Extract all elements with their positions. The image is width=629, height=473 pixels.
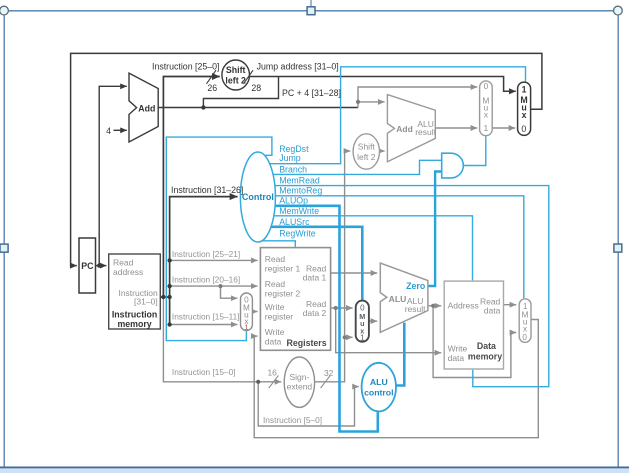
svg-text:address: address <box>113 267 143 277</box>
svg-text:Instruction [5–0]: Instruction [5–0] <box>263 415 322 425</box>
branch mux (0/Mux/1) <box>480 81 493 136</box>
selection border left <box>3 11 5 467</box>
svg-text:ALU: ALU <box>370 377 388 387</box>
wire: ALU control output to ALU (highlighted) <box>396 323 404 386</box>
wire: ALUOp control to ALU control (highlighted) <box>275 206 378 432</box>
wire: ALU result down to memtoreg mux input 0 <box>433 306 516 378</box>
sign extend oval <box>284 357 314 407</box>
svg-text:Instruction [25–21]: Instruction [25–21] <box>172 249 240 259</box>
svg-text:memory: memory <box>468 351 502 361</box>
wire: regdst mux output to write register <box>252 311 257 313</box>
edge handle right-middle <box>614 244 622 252</box>
bus slash 28 <box>244 70 254 84</box>
svg-text:Address: Address <box>448 301 479 311</box>
svg-text:16: 16 <box>267 367 277 377</box>
branch adder Add ALU result <box>387 95 435 162</box>
AND gate (branch and zero) <box>442 153 464 178</box>
adder Add (PC+4) <box>129 73 158 142</box>
svg-text:26: 26 <box>207 83 217 93</box>
svg-text:result: result <box>405 304 426 314</box>
svg-text:data 2: data 2 <box>303 308 327 318</box>
svg-text:Write: Write <box>265 302 285 312</box>
jump mux (1/Mux/0) <box>518 82 531 135</box>
data memory block <box>444 281 503 369</box>
wire: instruction [20-16] branch down to regdst mux input 0 <box>221 286 238 298</box>
svg-text:ALU: ALU <box>389 294 407 304</box>
svg-text:left 2: left 2 <box>357 152 376 162</box>
svg-text:1: 1 <box>360 333 365 342</box>
svg-text:Instruction [31–26]: Instruction [31–26] <box>171 185 243 195</box>
wire: Branch control to AND gate input 1 <box>272 160 441 174</box>
svg-text:Add: Add <box>396 124 413 134</box>
wire: RegWrite control to registers <box>262 241 295 247</box>
wire: sign extend output and riser to shift left 2 <box>315 151 351 382</box>
wire: writeback from memtoreg mux to registers write data <box>254 320 538 438</box>
svg-text:4: 4 <box>106 126 111 136</box>
svg-text:32: 32 <box>324 368 334 378</box>
svg-text:result: result <box>415 127 436 137</box>
wire: MemtoReg control to memtoreg mux select <box>275 196 524 298</box>
node: PC+4 branch junction <box>356 100 360 104</box>
svg-text:Instruction [15–0]: Instruction [15–0] <box>172 367 236 377</box>
wire: read data 1 to ALU input 1 <box>331 272 378 274</box>
node: ALU result tap <box>431 304 435 308</box>
svg-text:0: 0 <box>522 333 527 342</box>
svg-text:register: register <box>265 312 294 322</box>
svg-text:x: x <box>522 110 527 120</box>
regdst mux (0/Mux/1) <box>241 293 253 331</box>
node: sign extend input tap <box>256 380 260 384</box>
node: read data 2 tap <box>334 306 338 310</box>
bottom strip <box>0 468 629 473</box>
ALUSrc mux (0/Mux/1) highlighted dark <box>356 301 369 342</box>
svg-text:extend: extend <box>287 382 313 392</box>
ALU control oval <box>362 363 396 412</box>
wire: instruction memory output to bus <box>160 296 169 298</box>
svg-text:MemRead: MemRead <box>279 176 320 186</box>
wire: ALUSrc control to ALUSrc mux select (highlighted) <box>270 227 362 300</box>
edge handle left-middle <box>0 244 8 252</box>
wire: instruction [25-21] to read register 1 <box>170 259 258 261</box>
PC register <box>79 238 96 293</box>
svg-text:RegWrite: RegWrite <box>279 229 316 239</box>
shift left 2 (jump) <box>222 60 250 90</box>
svg-text:Jump: Jump <box>279 153 301 163</box>
svg-text:28: 28 <box>251 83 261 93</box>
wire: read data 2 to ALUSrc mux input 0 <box>331 307 353 309</box>
wire: AND gate output to branch mux select <box>463 136 485 165</box>
edge handle top-middle <box>307 7 315 15</box>
svg-text:Read: Read <box>113 257 134 267</box>
selection border right <box>617 11 619 467</box>
svg-text:0: 0 <box>521 124 526 134</box>
wire: MemWrite control to data memory <box>273 216 472 281</box>
wire: jump address [31-0] to jump mux input 1 <box>249 77 515 92</box>
node: PC+4 concat junction <box>201 105 205 109</box>
registers block <box>260 248 330 351</box>
selection border top <box>4 10 618 12</box>
node: immediate tap to ALUSrc mux <box>343 335 347 339</box>
svg-text:Branch: Branch <box>279 165 307 175</box>
svg-text:left 2: left 2 <box>225 76 246 86</box>
wire: instruction [20-16] to read register 2 <box>170 285 258 287</box>
svg-text:ALUSrc: ALUSrc <box>279 217 310 227</box>
svg-text:[31–0]: [31–0] <box>134 297 158 307</box>
wire: branch Add result to branch mux input 1 <box>435 127 477 129</box>
wire: Jump control to jump mux select <box>268 67 526 164</box>
shift left 2 (branch) <box>353 134 379 169</box>
node: PC output junction <box>97 263 101 267</box>
svg-text:Zero: Zero <box>406 281 426 291</box>
page bottom edge line <box>0 467 629 469</box>
wire: data memory read data to memtoreg mux input 1 <box>504 304 517 306</box>
wire: PC value up to Add input 1 <box>99 86 127 265</box>
main ALU <box>380 263 428 332</box>
corner handle top-right <box>614 6 623 15</box>
bus slash 16 <box>269 376 279 389</box>
svg-text:Registers: Registers <box>287 338 327 348</box>
svg-text:data: data <box>265 337 282 347</box>
svg-text:Instruction [20–16]: Instruction [20–16] <box>172 274 240 284</box>
svg-text:0: 0 <box>484 82 489 91</box>
svg-text:register 1: register 1 <box>265 263 301 273</box>
wire: PC+4 up to branch mux input 0 <box>358 87 477 102</box>
svg-text:MemtoReg: MemtoReg <box>279 186 322 196</box>
svg-text:Add: Add <box>138 104 155 114</box>
svg-text:Jump address [31–0]: Jump address [31–0] <box>257 62 339 72</box>
control unit oval <box>240 152 275 242</box>
wire: instruction [5-0] to ALU control <box>258 382 359 426</box>
svg-text:MemWrite: MemWrite <box>279 206 319 216</box>
svg-text:memory: memory <box>117 319 151 329</box>
svg-text:register 2: register 2 <box>265 289 301 299</box>
svg-text:Instruction: Instruction <box>112 310 157 320</box>
node: instruction [20-16] split <box>218 284 222 288</box>
svg-text:Control: Control <box>242 192 274 202</box>
svg-text:Instruction [15–11]: Instruction [15–11] <box>172 311 240 321</box>
svg-text:data 1: data 1 <box>303 273 327 283</box>
wire: PC+4 jog to junction <box>357 102 359 108</box>
svg-text:Write: Write <box>448 344 468 354</box>
svg-text:Write: Write <box>265 327 285 337</box>
wire: Add output PC+4 <box>158 107 358 109</box>
svg-text:Shift: Shift <box>358 141 376 151</box>
wire: immediate branch to ALUSrc mux input 1 <box>345 336 353 338</box>
wire: MemRead control to data memory <box>274 186 549 387</box>
wire: shift left 2 output to branch Add input 2 <box>380 150 385 152</box>
svg-text:Read: Read <box>265 254 286 264</box>
svg-text:PC: PC <box>81 261 94 271</box>
wire: PC feedback from jump mux output around top to PC input <box>71 53 542 265</box>
svg-text:1: 1 <box>523 302 528 311</box>
wire: constant 4 into Add input 2 <box>114 129 127 131</box>
bus slash 32 <box>321 376 331 389</box>
wire: PC+4 into branch Add input 1 <box>358 101 385 103</box>
wire: Zero flag from ALU to AND gate input 2 (highlighted) <box>428 172 441 287</box>
wire: instruction [15-11] to regdst mux input 1 <box>170 324 238 326</box>
wire: instruction [25-0] up to shift left 2 <box>163 77 219 298</box>
svg-text:Sign-: Sign- <box>289 372 309 382</box>
rotation handle stem <box>310 0 312 7</box>
svg-text:Instruction [25–0]: Instruction [25–0] <box>152 62 219 72</box>
wire: ALU result to data memory address <box>428 305 441 307</box>
svg-text:1: 1 <box>484 124 489 133</box>
wire: PC output to instruction memory read address <box>96 265 107 267</box>
svg-text:data: data <box>448 353 465 363</box>
svg-text:x: x <box>484 111 488 120</box>
wire: PC+4 [31-28] concatenation riser <box>203 77 278 108</box>
svg-text:1: 1 <box>244 323 248 332</box>
svg-text:Shift: Shift <box>226 65 246 75</box>
bus slash 26 <box>207 70 217 84</box>
wire: branch mux output to jump mux input 0 <box>492 127 515 129</box>
node: instruction bus taps <box>161 295 165 299</box>
svg-text:1: 1 <box>522 85 527 95</box>
svg-text:Read: Read <box>265 279 286 289</box>
instruction memory <box>109 254 161 329</box>
wire: read data 2 down to data memory write data <box>336 308 442 353</box>
corner handle top-left <box>0 6 8 15</box>
wire: instruction [15-0] down to sign extend <box>163 297 281 382</box>
wire: instruction bus vertical and [31-26] into Control <box>170 197 238 325</box>
memtoreg mux (1/Mux/0) <box>519 299 531 343</box>
svg-text:data: data <box>484 306 501 316</box>
svg-text:control: control <box>364 387 393 397</box>
wire: ALUSrc mux output to ALU input 2 <box>369 320 377 322</box>
svg-text:Data: Data <box>477 341 496 351</box>
svg-text:PC + 4 [31–28]: PC + 4 [31–28] <box>282 88 341 98</box>
svg-text:ALUOp: ALUOp <box>279 196 308 206</box>
wire: RegDst control to regdst mux select <box>166 137 272 341</box>
